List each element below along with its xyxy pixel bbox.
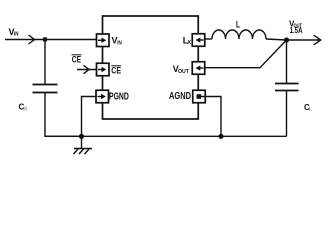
pin VOUT box [192,62,205,75]
svg-text:IN: IN [14,32,19,38]
wire VIN input [5,39,97,41]
node ground junction left [79,134,84,139]
node VOUT junction [284,37,289,42]
inductor L [212,30,266,39]
svg-text:X: X [187,40,191,46]
svg-text:IN: IN [23,106,27,112]
svg-text:1.5A: 1.5A [290,26,303,35]
wire CL to ground bus [286,91,288,137]
wire AGND to ground bus [205,97,221,137]
wire ground bus [45,135,287,137]
svg-text:CE: CE [72,55,81,65]
IC U1 body [103,16,199,119]
svg-text:PGND: PGND [109,92,129,103]
wire VOUT output [287,39,321,41]
capacitor CIN [33,84,58,86]
pin PGND box [96,90,109,103]
pin CE box [97,63,110,76]
wire output node to CL [286,40,288,83]
wire VOUT sense [205,40,287,68]
arrowhead CE input [84,65,90,73]
wire CE input [77,69,97,71]
wire CIN to ground bus [45,93,82,137]
pin LX box [192,34,205,47]
node ground junction right (AGND) [218,134,223,139]
pin AGND box [193,90,206,103]
svg-text:CE: CE [111,66,121,76]
wire LX to inductor [205,38,213,40]
arrowhead VIN input [29,35,35,44]
wire PGND to ground [82,97,97,137]
svg-text:AGND: AGND [169,91,191,102]
wire CIN branch [44,40,46,85]
node VIN junction [43,37,48,42]
wire inductor to output node [266,39,287,40]
pin VIN box [97,34,110,47]
svg-text:IN: IN [117,41,122,47]
arrowhead VOUT output [314,35,321,45]
capacitor CL [275,83,299,85]
ground symbol [74,136,93,154]
svg-text:OUT: OUT [178,69,190,75]
svg-text:L: L [236,20,240,30]
